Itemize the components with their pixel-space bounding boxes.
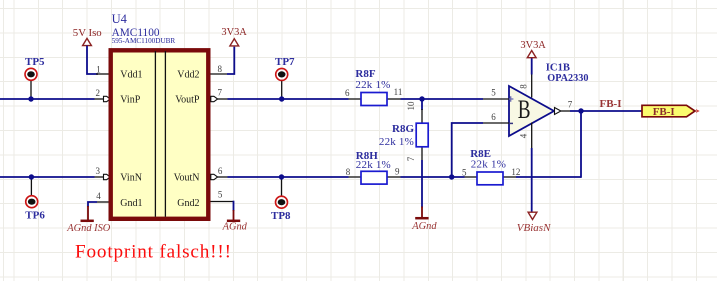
svg-text:7: 7 bbox=[568, 99, 573, 109]
svg-text:6: 6 bbox=[491, 112, 496, 122]
svg-text:22k 1%: 22k 1% bbox=[471, 158, 506, 170]
svg-text:12: 12 bbox=[511, 167, 520, 177]
svg-text:5: 5 bbox=[462, 168, 467, 178]
svg-text:4: 4 bbox=[519, 133, 529, 138]
pin 8 op-amp bbox=[519, 74, 532, 98]
pin name VoutP bbox=[175, 95, 200, 106]
pin 7 U4 VoutP bbox=[211, 88, 228, 102]
svg-text:8: 8 bbox=[519, 84, 529, 89]
pin 4 U4 Gnd1 bbox=[96, 191, 109, 202]
pin name VoutN bbox=[174, 173, 200, 184]
svg-text:22k 1%: 22k 1% bbox=[355, 79, 390, 91]
resistor R8E bbox=[462, 148, 520, 185]
wire R8F to op-amp pin5 bbox=[401, 98, 484, 100]
svg-text:3V3A: 3V3A bbox=[221, 27, 247, 38]
svg-text:B: B bbox=[518, 95, 531, 124]
svg-text:6: 6 bbox=[345, 88, 350, 98]
resistor R8F bbox=[345, 68, 402, 105]
svg-text:595-AMC1100DUBR: 595-AMC1100DUBR bbox=[112, 37, 176, 45]
svg-text:Vdd2: Vdd2 bbox=[177, 70, 199, 81]
pin 7 op-amp output bbox=[555, 99, 573, 114]
note Footprint falsch!!! bbox=[75, 242, 232, 263]
ground AGnd (R8G) bbox=[411, 207, 437, 233]
pin name Gnd2 bbox=[177, 198, 199, 209]
svg-text:R8G: R8G bbox=[392, 123, 414, 135]
pin 8 U4 Vdd2 bbox=[211, 64, 228, 74]
junction TP7/VoutP bbox=[279, 96, 284, 101]
svg-text:TP7: TP7 bbox=[275, 56, 295, 68]
pin name Vdd1 bbox=[120, 70, 142, 81]
svg-text:10: 10 bbox=[406, 101, 416, 111]
power port 5V Iso bbox=[73, 27, 102, 74]
junction TP5/VinP bbox=[28, 96, 33, 101]
svg-text:Footprint falsch!!!: Footprint falsch!!! bbox=[75, 242, 232, 263]
svg-text:8: 8 bbox=[218, 64, 223, 74]
test point TP8 bbox=[271, 177, 291, 222]
svg-text:AGnd ISO: AGnd ISO bbox=[66, 223, 110, 234]
svg-text:5: 5 bbox=[491, 88, 496, 98]
svg-text:Vdd1: Vdd1 bbox=[120, 70, 142, 81]
junction output/feedback bbox=[578, 108, 583, 113]
test point TP7 bbox=[275, 56, 295, 99]
svg-text:OPA2330: OPA2330 bbox=[547, 73, 588, 84]
svg-text:22k 1%: 22k 1% bbox=[356, 159, 391, 171]
pin 2 U4 VinP bbox=[95, 88, 111, 102]
junction R8G top bbox=[419, 96, 424, 101]
svg-text:FB-I: FB-I bbox=[653, 106, 675, 118]
wire VoutP to R8F bbox=[228, 98, 349, 100]
power port 3V3A (op-amp) bbox=[520, 40, 546, 74]
junction inverting node bbox=[449, 174, 454, 179]
pin name Vdd2 bbox=[177, 70, 199, 81]
wire net VinN left segment bbox=[0, 176, 95, 178]
svg-text:6: 6 bbox=[218, 166, 223, 176]
svg-text:TP6: TP6 bbox=[25, 209, 45, 221]
junction TP6/VinN bbox=[29, 174, 34, 179]
svg-text:VinN: VinN bbox=[120, 173, 142, 184]
svg-text:1: 1 bbox=[96, 64, 101, 74]
svg-text:VoutN: VoutN bbox=[174, 173, 200, 184]
wire Gnd2 to AGnd bbox=[233, 201, 235, 211]
wire output to port FB-I bbox=[570, 110, 642, 112]
pin name VinN bbox=[120, 173, 142, 184]
svg-text:11: 11 bbox=[394, 87, 403, 97]
isolation barrier lines U4 bbox=[155, 51, 165, 217]
wire R8E pin12 to feedback bbox=[516, 176, 581, 178]
junction TP8/VoutN bbox=[279, 174, 284, 179]
svg-text:TP5: TP5 bbox=[25, 56, 45, 68]
test point TP5 bbox=[25, 56, 45, 99]
pin 6 U4 VoutN bbox=[211, 166, 228, 180]
svg-text:VBiasN: VBiasN bbox=[517, 222, 551, 234]
IC U4 AMC1100 body bbox=[111, 12, 209, 219]
resistor R8H bbox=[346, 150, 401, 184]
ground AGnd (U4) bbox=[222, 210, 248, 233]
svg-text:7: 7 bbox=[217, 88, 222, 98]
svg-text:22k 1%: 22k 1% bbox=[379, 136, 414, 148]
svg-text:4: 4 bbox=[96, 191, 101, 201]
pin 1 U4 Vdd1 bbox=[96, 64, 109, 74]
svg-text:AGnd: AGnd bbox=[222, 222, 248, 233]
wire inverting node to op-amp pin6 bbox=[452, 123, 483, 177]
svg-text:2: 2 bbox=[96, 88, 101, 98]
ground AGnd ISO bbox=[66, 206, 110, 234]
wire R8H to R8E / pin6 node bbox=[401, 176, 465, 178]
op-amp IC1B OPA2330 bbox=[508, 63, 588, 136]
port FB-I bbox=[642, 105, 699, 118]
svg-text:VinP: VinP bbox=[120, 95, 140, 106]
wire Gnd1 to AGnd ISO bbox=[88, 202, 97, 207]
pin 6 op-amp bbox=[483, 112, 509, 123]
svg-text:Gnd1: Gnd1 bbox=[120, 198, 142, 209]
wire pin4 to VBiasN bbox=[531, 148, 533, 212]
wire net VinP left segment bbox=[0, 98, 95, 100]
pin 3 U4 VinN bbox=[95, 166, 111, 180]
svg-text:3V3A: 3V3A bbox=[520, 40, 546, 51]
power port VBiasN bbox=[517, 212, 551, 234]
pin 4 op-amp bbox=[519, 123, 532, 150]
power port 3V3A (U4) bbox=[221, 27, 247, 74]
pin 5 op-amp bbox=[483, 88, 509, 99]
svg-text:5: 5 bbox=[218, 189, 223, 199]
net label FB-I bbox=[600, 98, 622, 110]
svg-text:U4: U4 bbox=[112, 12, 128, 26]
test point TP6 bbox=[25, 177, 45, 221]
svg-text:TP8: TP8 bbox=[271, 210, 291, 222]
svg-text:7: 7 bbox=[406, 156, 416, 161]
svg-text:AGnd: AGnd bbox=[411, 221, 437, 232]
svg-text:3: 3 bbox=[96, 166, 101, 176]
svg-text:8: 8 bbox=[346, 167, 351, 177]
wire R8G to AGnd bbox=[421, 160, 423, 208]
svg-text:VoutP: VoutP bbox=[175, 95, 200, 106]
wire VoutN to R8H bbox=[228, 176, 349, 178]
pin 5 U4 Gnd2 bbox=[211, 189, 234, 201]
pin name Gnd1 bbox=[120, 198, 142, 209]
svg-text:5V Iso: 5V Iso bbox=[73, 27, 102, 39]
svg-text:IC1B: IC1B bbox=[546, 63, 570, 74]
resistor R8G bbox=[379, 99, 428, 161]
pin name VinP bbox=[120, 95, 140, 106]
svg-text:9: 9 bbox=[395, 167, 400, 177]
svg-text:FB-I: FB-I bbox=[600, 98, 622, 110]
wire feedback vertical bbox=[580, 111, 582, 178]
svg-text:Gnd2: Gnd2 bbox=[177, 198, 199, 209]
